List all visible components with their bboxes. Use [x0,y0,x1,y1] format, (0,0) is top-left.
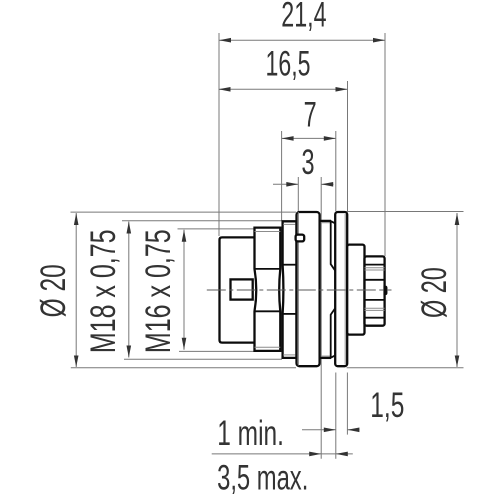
extension line left (3) [297,177,299,366]
solder cup block [365,256,385,325]
front flange [297,212,320,366]
svg-text:21,4: 21,4 [281,0,326,35]
centerline [207,289,392,291]
M16 thread section [255,228,281,351]
extension line top-left (21,4 / 16,5) [218,33,220,236]
rear insulator block [347,245,364,335]
dimension 16,5 [219,45,348,92]
front barrel [220,237,255,342]
flange notch [296,235,305,242]
svg-text:M18 x 0,75: M18 x 0,75 [84,229,123,353]
dimension D20 right [347,212,464,368]
svg-text:Ø 20: Ø 20 [35,264,73,317]
extension line bottom (1,5 left / panel) [335,373,337,459]
svg-text:7: 7 [304,96,317,135]
svg-text:1 min.: 1 min. [217,415,284,453]
dimension M16 x 0,75 [139,229,256,353]
M18 thread section [283,221,297,358]
svg-text:3,5 max.: 3,5 max. [217,459,308,498]
dimension 1 min. / 3,5 max. [212,415,353,498]
svg-text:M16 x 0,75: M16 x 0,75 [139,229,178,353]
svg-text:3: 3 [301,143,314,182]
extension line right (3 / 3,5 max) [320,177,322,459]
dimension D20 left [35,212,296,368]
dimension 3 [273,143,334,186]
svg-text:16,5: 16,5 [266,45,311,84]
center solder cup bump [385,287,387,294]
dimension M18 x 0,75 [84,221,282,360]
extension line top-right (21,4) [384,33,386,256]
locknut [335,212,347,366]
dimension 1,5 [302,387,404,432]
extension line bottom (1,5 right) [346,373,348,435]
extension line right (7) [335,131,337,211]
dimension 7 [282,96,336,141]
extension line left (7) [281,131,283,221]
3-dim extension line over flange [297,212,299,366]
svg-text:Ø 20: Ø 20 [415,267,454,318]
dimension 21,4 [219,0,385,43]
thread behind panel [320,221,336,358]
center pin [231,279,253,299]
extension line right (16,5) [347,81,349,211]
svg-text:1,5: 1,5 [370,387,404,425]
